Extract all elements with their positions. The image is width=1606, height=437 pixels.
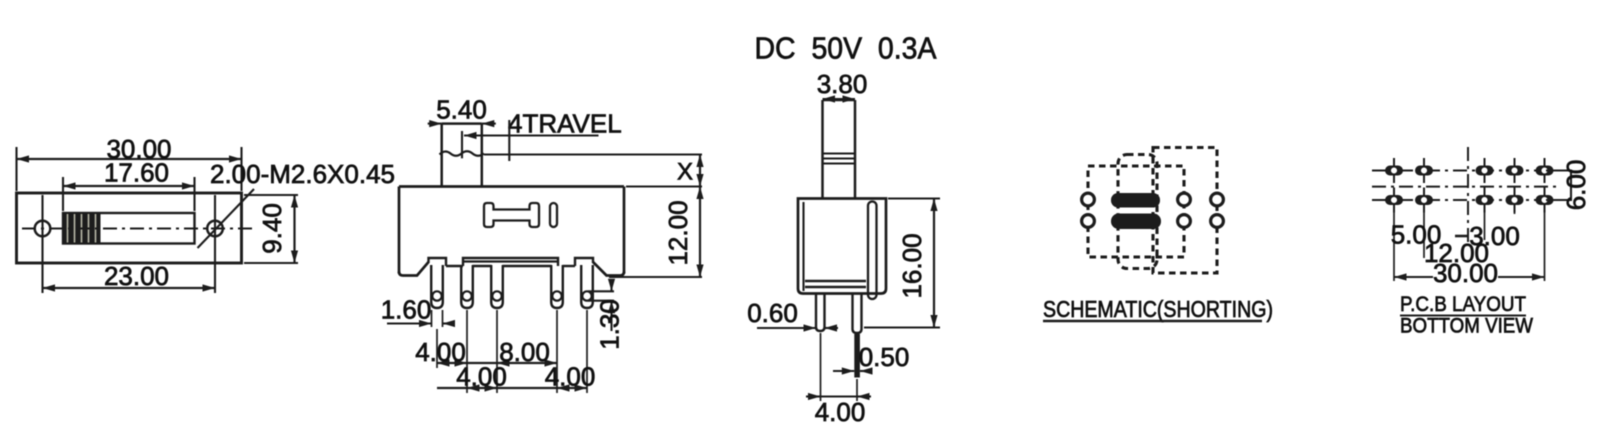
svg-text:SCHEMATIC(SHORTING): SCHEMATIC(SHORTING) (1043, 296, 1273, 322)
svg-text:2.00-M2.6X0.45: 2.00-M2.6X0.45 (210, 159, 395, 189)
svg-text:DC 50V 0.3A: DC 50V 0.3A (755, 31, 937, 66)
svg-text:16.00: 16.00 (897, 233, 927, 298)
svg-text:BOTTOM VIEW: BOTTOM VIEW (1400, 314, 1534, 338)
svg-text:30.00: 30.00 (1433, 258, 1498, 288)
svg-text:17.60: 17.60 (104, 158, 169, 188)
svg-text:1.60: 1.60 (381, 295, 432, 325)
svg-text:X: X (677, 159, 693, 186)
svg-text:9.40: 9.40 (257, 203, 287, 254)
svg-text:P.C.B LAYOUT: P.C.B LAYOUT (1400, 292, 1526, 316)
svg-text:6.00: 6.00 (1561, 160, 1591, 211)
svg-text:4TRAVEL: 4TRAVEL (508, 109, 622, 139)
svg-text:5.40: 5.40 (436, 95, 487, 125)
svg-text:4.00: 4.00 (545, 362, 596, 392)
svg-text:3.80: 3.80 (817, 69, 868, 99)
svg-text:4.00: 4.00 (456, 362, 507, 392)
svg-text:0.50: 0.50 (859, 342, 910, 372)
svg-text:12.00: 12.00 (663, 200, 693, 265)
svg-text:1.30: 1.30 (595, 299, 625, 350)
svg-text:0.60: 0.60 (747, 298, 798, 328)
svg-text:23.00: 23.00 (104, 261, 169, 291)
svg-text:4.00: 4.00 (815, 397, 866, 427)
